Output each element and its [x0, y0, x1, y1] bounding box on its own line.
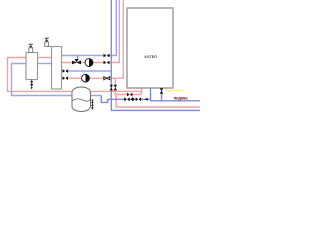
svg-text:КОТЕЛ: КОТЕЛ	[145, 55, 158, 59]
drain valve at tank right	[91, 99, 94, 110]
wire: row1 blue circuit from manifold, rises at x=116.3	[62, 0, 117, 56]
wire: row3 blue circuit from manifold to riser V1	[62, 70, 112, 72]
wire: blue return left loop from electric boiler left side	[12, 64, 102, 96]
pump P1 on row2	[85, 59, 93, 67]
valve X2 on red branch	[114, 85, 117, 91]
ball valve B2 on blue line C	[136, 97, 141, 101]
wire: red boiler drop connecting red lines to boiler bottom	[141, 88, 143, 95]
ball valve on red boiler return line	[127, 93, 132, 97]
wire: yellow gas line from boiler bottom	[167, 88, 184, 91]
tank (expansion vessel)	[72, 87, 91, 112]
filter diamond on blue line C	[131, 97, 135, 101]
svg-text:подача: подача	[174, 95, 189, 100]
wire: gray stub manifold top to air vent	[47, 46, 52, 48]
electric boiler K2	[26, 53, 38, 80]
wire: blue stub row1 down to three-way valve	[77, 56, 79, 61]
wire: red stub electric boiler to manifold	[38, 57, 52, 59]
ball valve row1 right	[104, 54, 110, 58]
air vent U1 on electric boiler	[29, 44, 33, 52]
boiler (gas boiler, big)	[127, 8, 173, 88]
drain valve under electric boiler	[30, 80, 33, 90]
wire: red branch from row4 down through valve to boiler return line	[115, 78, 141, 94]
wire: blue return dip and lower feed line to right edge	[101, 96, 107, 103]
wire: blue stub electric boiler to manifold	[38, 63, 52, 65]
check valve row4 right (open bowtie)	[104, 77, 110, 80]
ball valve B1 on blue line C	[124, 97, 130, 101]
manifold (hydraulic separator)	[52, 47, 62, 90]
ball valve row2 right	[104, 61, 110, 65]
valve X3 under boiler	[160, 88, 164, 93]
flow arrow on blue line C near boiler	[144, 98, 147, 101]
wire: boiler safety drop with valve to lower blue line	[161, 88, 163, 101]
pump P2 on row4	[82, 74, 90, 82]
ball valve row3 left	[63, 69, 69, 73]
wire: red supply left loop from electric boiler left side down and along bottom	[8, 58, 142, 92]
wire: red drop to lower red line to right edge	[116, 95, 200, 108]
wire: row2 red circuit from manifold, rises at x=119.3	[62, 0, 120, 63]
ball valve row4 left	[63, 76, 69, 80]
wire: blue boiler drop	[151, 88, 201, 101]
air vent U2 on manifold	[45, 38, 49, 46]
three-way mixing valve on row2	[72, 59, 81, 64]
wire: row4 red circuit from manifold, rises at x=123.3	[62, 0, 124, 78]
wire: blue riser V1 full drop to bottom line and right edge	[111, 0, 200, 110]
valve X1 on riser V1	[110, 85, 113, 91]
wire: blue line C with valves under boiler	[108, 98, 151, 100]
